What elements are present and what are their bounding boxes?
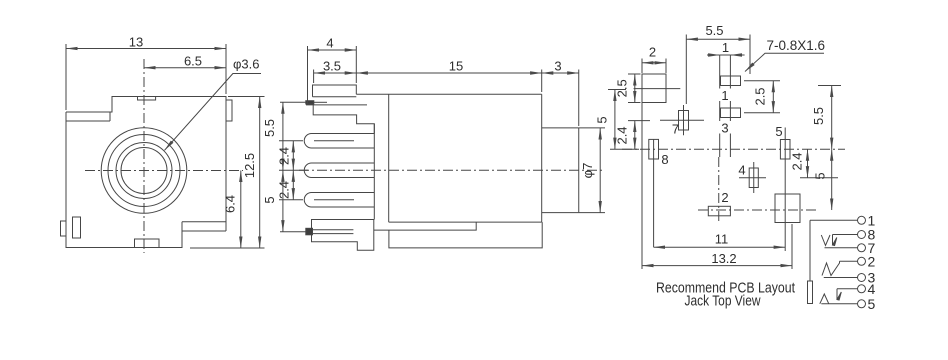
svg-text:7: 7 <box>672 122 679 137</box>
pin 1 terminal <box>810 213 876 229</box>
dimension 6.4 <box>223 171 241 249</box>
dimension 1 top <box>707 40 745 55</box>
switch contact V <box>821 235 830 246</box>
pin 3 terminal <box>824 270 876 286</box>
svg-text:2.4: 2.4 <box>277 181 292 199</box>
svg-text:5: 5 <box>262 196 277 203</box>
svg-text:1: 1 <box>722 40 729 55</box>
sleeve contact wire <box>808 220 813 303</box>
stepped profile upper left side view <box>313 105 374 134</box>
svg-text:2: 2 <box>721 190 728 205</box>
svg-text:11: 11 <box>715 231 729 246</box>
svg-text:3.5: 3.5 <box>323 59 341 74</box>
dimension 6.5 <box>144 54 226 69</box>
pad 3 <box>718 108 741 136</box>
svg-text:13: 13 <box>129 35 143 50</box>
bottom notch front view <box>135 239 160 248</box>
left chain pcb dimension 2.4 <box>615 121 651 150</box>
svg-text:6.4: 6.4 <box>223 195 238 213</box>
svg-text:15: 15 <box>449 59 463 74</box>
pad 2 left <box>634 74 681 269</box>
bottom pcb pin side view <box>306 228 354 235</box>
left chain dimension 5.5 <box>262 102 306 170</box>
svg-text:2: 2 <box>868 254 876 270</box>
dimension 3 <box>542 59 579 127</box>
dimension 2 top left <box>642 45 666 74</box>
pin 5 terminal <box>821 296 875 312</box>
svg-text:5.5: 5.5 <box>705 23 723 38</box>
pin 7 terminal <box>825 240 876 256</box>
concentric circles front view <box>101 128 187 214</box>
pad 5 <box>775 124 790 251</box>
dimension 13.2 bottom <box>642 224 792 269</box>
svg-text:3: 3 <box>721 121 728 136</box>
dimension 11 bottom <box>654 231 786 247</box>
left tab front view <box>61 221 67 236</box>
svg-text:2.4: 2.4 <box>615 126 630 144</box>
svg-text:2.4: 2.4 <box>790 152 805 170</box>
pin 4 terminal <box>837 281 876 300</box>
contact finger 1 <box>304 134 374 149</box>
tip contact triangle <box>820 294 829 304</box>
dimension 5.5 top <box>686 23 750 104</box>
dimension phi7 <box>579 128 605 213</box>
body outline front view <box>66 97 226 248</box>
svg-text:6.5: 6.5 <box>184 54 202 69</box>
right tab front view <box>226 100 232 121</box>
svg-text:2: 2 <box>649 45 656 60</box>
contact finger 3 <box>304 193 374 208</box>
body outline side view <box>356 94 541 222</box>
right chain pcb dimension 2.5 <box>744 81 780 113</box>
big pad <box>775 194 800 223</box>
centerlines front view <box>85 59 243 253</box>
centerline big pad pcb <box>698 209 818 211</box>
left chain pcb dimension 5 <box>595 90 640 150</box>
right chain pcb dimension 5.5 <box>811 86 841 150</box>
left chain dimension 2.4 lower <box>277 170 304 200</box>
svg-text:12.5: 12.5 <box>242 153 257 178</box>
svg-text:8: 8 <box>661 152 668 167</box>
svg-text:5: 5 <box>868 296 876 312</box>
svg-text:4: 4 <box>326 36 333 51</box>
pad 1 <box>718 55 741 157</box>
pin 2 terminal <box>822 254 876 276</box>
svg-text:5.5: 5.5 <box>811 107 826 125</box>
caption Recommend PCB Layout <box>656 280 796 310</box>
pad 2 bottom <box>708 190 730 216</box>
centerline vertical pcb <box>719 55 721 157</box>
svg-text:4: 4 <box>868 281 876 297</box>
dimension 15 <box>356 59 541 93</box>
svg-text:φ3.6: φ3.6 <box>233 57 260 72</box>
bottom tab side view <box>312 220 374 251</box>
label diameter 3.6 with leader <box>165 57 262 151</box>
right chain pcb dimension 2.4 <box>790 149 839 178</box>
top mounting tab side view <box>313 85 357 97</box>
left chain dimension 5 <box>262 170 306 231</box>
svg-text:5: 5 <box>813 172 828 179</box>
svg-text:5: 5 <box>595 116 610 123</box>
dimension 3.5 <box>314 59 357 84</box>
barrel side view <box>542 128 579 213</box>
contact finger 2 <box>304 163 374 178</box>
svg-text:5: 5 <box>775 124 782 139</box>
left chain pcb dimension 2.5 <box>615 74 641 103</box>
svg-text:13.2: 13.2 <box>711 251 736 266</box>
pad 4 <box>738 162 766 193</box>
svg-text:2.4: 2.4 <box>277 147 292 165</box>
pad 8 <box>649 139 669 247</box>
svg-text:2.5: 2.5 <box>615 79 630 97</box>
dimension 13 <box>66 35 226 111</box>
top notch front view <box>138 97 156 101</box>
pad 7 <box>660 105 704 137</box>
inner rectangle front view <box>73 217 81 238</box>
label 7-0.8X1.6 with leader <box>745 38 825 72</box>
svg-text:φ7: φ7 <box>580 163 595 179</box>
dimension 4 <box>308 36 357 106</box>
bottom plate side view <box>374 222 542 248</box>
svg-text:1: 1 <box>721 88 728 103</box>
pin 8 terminal <box>833 227 876 246</box>
centerline horizontal pcb <box>622 148 845 150</box>
svg-text:Jack Top View: Jack Top View <box>685 293 761 310</box>
centerline solid tick at left chain <box>279 169 308 171</box>
svg-text:2.5: 2.5 <box>753 87 768 105</box>
svg-text:3: 3 <box>554 59 561 74</box>
right chain pcb dimension 5 <box>813 149 832 210</box>
left chain dimension 2.4 upper <box>277 141 304 171</box>
centerline side view <box>299 169 602 171</box>
svg-text:4: 4 <box>738 163 745 178</box>
svg-text:5.5: 5.5 <box>262 119 277 137</box>
svg-text:7-0.8X1.6: 7-0.8X1.6 <box>767 38 826 53</box>
dimension 12.5 <box>190 97 265 249</box>
top pcb pin side view <box>306 101 367 105</box>
